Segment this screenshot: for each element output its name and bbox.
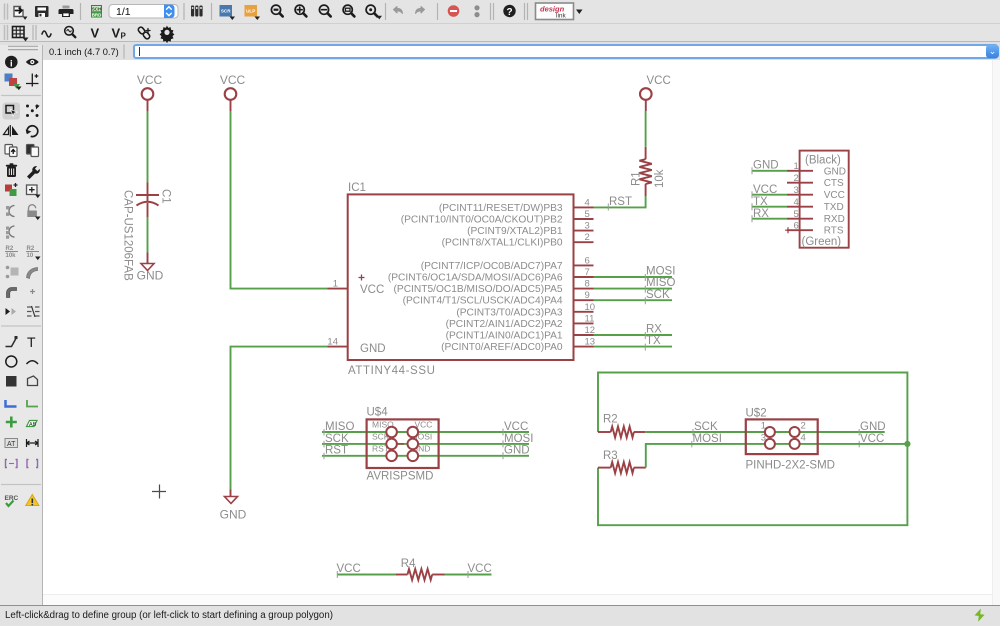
separators [491, 4, 494, 20]
VCC right tick [467, 571, 469, 578]
sch/brd icon [92, 6, 102, 18]
stop icon [448, 5, 460, 17]
svg-text:1: 1 [794, 161, 799, 172]
wire MOSI net [594, 276, 673, 278]
svg-text:6: 6 [794, 220, 799, 231]
power symbol VCC3 circle [640, 88, 652, 100]
svg-text:13: 13 [585, 337, 596, 348]
wire VCC1 to C1 [147, 111, 149, 183]
zoom in [295, 5, 306, 16]
change tool (wrench) [27, 166, 40, 179]
resistor R3 zigzag [611, 462, 634, 473]
U$4 pads [386, 427, 418, 461]
svg-text:(PCINT6/OC1A/SDA/MOSI/ADC6)PA6: (PCINT6/OC1A/SDA/MOSI/ADC6)PA6 [388, 273, 563, 284]
VCC left tick [336, 571, 338, 578]
svg-text:(PCINT9/XTAL2)PB1: (PCINT9/XTAL2)PB1 [467, 226, 563, 237]
svg-text:GND: GND [860, 421, 886, 433]
svg-text:SCK: SCK [646, 289, 670, 301]
svg-text:RST: RST [325, 445, 348, 457]
wire GND serial [752, 170, 788, 172]
svg-text:ERC: ERC [5, 495, 19, 502]
save icon [35, 6, 49, 17]
svg-text:(PCINT7/ICP/OC0B/ADC7)PA7: (PCINT7/ICP/OC0B/ADC7)PA7 [421, 261, 563, 272]
svg-text:V: V [112, 26, 121, 41]
split tool [27, 306, 40, 317]
svg-text:CTS: CTS [824, 178, 844, 189]
replace tool [5, 183, 18, 196]
svg-text:14: 14 [327, 337, 338, 348]
svg-text:TX: TX [753, 196, 768, 208]
separator [123, 45, 125, 59]
svg-text:(Green): (Green) [802, 236, 842, 248]
serial pin names [824, 166, 846, 236]
gateswap tool [6, 308, 17, 315]
serial pin stubs [787, 171, 813, 230]
svg-text:GND: GND [137, 269, 164, 283]
polygon tool [28, 376, 38, 386]
go dots [474, 5, 479, 17]
U$4 inside pin names [372, 420, 432, 454]
group lock tool [27, 205, 40, 220]
frame1 tool [6, 460, 18, 468]
palette separator 3 [1, 484, 41, 486]
undo [394, 7, 403, 14]
svg-text:V: V [91, 26, 100, 41]
wire SCK net [594, 299, 673, 301]
print icon [59, 6, 74, 18]
svg-text:2: 2 [794, 173, 799, 184]
svg-text:10k: 10k [654, 169, 666, 188]
VCC1 pin stub [147, 100, 149, 112]
resistor R4 zigzag [408, 569, 433, 580]
svg-text:T: T [27, 334, 36, 350]
svg-text:AB: AB [29, 422, 37, 428]
wire R3 up and to right edge [646, 444, 908, 468]
junction dot [904, 441, 910, 447]
svg-text:10: 10 [27, 253, 34, 259]
move tool [26, 104, 40, 117]
wave icon [42, 31, 51, 37]
separator [80, 4, 82, 20]
IC1 right pin stubs [574, 207, 594, 346]
IC1 pin name labels [388, 203, 563, 353]
svg-text:VCC: VCC [647, 75, 671, 87]
svg-text:8: 8 [585, 279, 590, 290]
svg-text:BRD: BRD [92, 12, 102, 17]
separator [437, 4, 439, 20]
miter tool [26, 246, 41, 260]
svg-text:C1: C1 [160, 189, 172, 204]
svg-text:(PCINT5/OC1B/MISO/DO/ADC5)PA5: (PCINT5/OC1B/MISO/DO/ADC5)PA5 [394, 284, 563, 295]
wire R1 to VCC3 [645, 111, 647, 147]
copy tool [5, 145, 17, 157]
paste tool [27, 145, 39, 157]
library icon [191, 6, 203, 17]
svg-text:TXD: TXD [824, 202, 844, 213]
svg-text:4: 4 [794, 197, 799, 208]
svg-text:U$2: U$2 [746, 408, 767, 420]
IC1 pin 1 stub [328, 288, 348, 290]
resistor R2 right lead [634, 431, 646, 433]
right label ticks [502, 429, 504, 460]
svg-text:VCC: VCC [753, 184, 777, 196]
svg-text:SCR: SCR [221, 9, 231, 14]
resistor R3 right lead [634, 467, 646, 469]
serial connector body [800, 151, 849, 248]
junction cross small [30, 289, 35, 294]
errors tool [26, 495, 39, 506]
svg-text:5: 5 [585, 209, 590, 220]
mirror tool [4, 125, 18, 137]
arc tool [27, 361, 39, 364]
svg-text:(PCINT10/INT0/OC0A/CKOUT)PB2: (PCINT10/INT0/OC0A/CKOUT)PB2 [401, 215, 563, 226]
GND2 pin stub [230, 490, 232, 497]
wire AVRISP RST row [322, 455, 529, 457]
eye [26, 59, 39, 66]
erc tool [5, 495, 19, 506]
connector U$4 body [367, 419, 439, 468]
svg-text:IC1: IC1 [348, 182, 366, 194]
mark origin [26, 74, 39, 87]
svg-text:11: 11 [585, 313, 595, 324]
wire VCC to R4 left [337, 574, 396, 576]
wire IC1 pin 14 to GND2 [231, 347, 328, 490]
svg-text:(PCINT1/AIN0/ADC1)PA1: (PCINT1/AIN0/ADC1)PA1 [446, 331, 563, 342]
wire RX serial [752, 218, 788, 220]
svg-text:GND: GND [824, 166, 846, 177]
svg-text:VCC: VCC [504, 421, 528, 433]
name tool [6, 206, 15, 217]
svg-text:R3: R3 [603, 450, 618, 462]
svg-text:10k: 10k [6, 253, 17, 259]
svg-text:VCC: VCC [860, 433, 884, 445]
svg-text:1: 1 [333, 279, 338, 290]
power symbol VCC2 circle [225, 88, 237, 100]
grip row2 [5, 26, 8, 40]
svg-text:VCC: VCC [220, 73, 246, 87]
svg-text:R4: R4 [401, 558, 416, 570]
svg-text:AVRISPSMD: AVRISPSMD [367, 471, 434, 483]
wire/line tool [6, 336, 18, 347]
help icon [503, 5, 515, 18]
svg-text:(PCINT0/AREF/ADC0)PA0: (PCINT0/AREF/ADC0)PA0 [441, 342, 563, 353]
label tool [27, 421, 38, 428]
svg-text:4: 4 [585, 197, 590, 208]
resistor R2 left lead [598, 431, 611, 433]
magnifier-wave icon [65, 27, 76, 38]
svg-text:U$4: U$4 [367, 407, 389, 419]
svg-text:VCC: VCC [824, 190, 845, 201]
svg-text:MOSI: MOSI [504, 433, 533, 445]
wire MISO net [594, 288, 673, 290]
svg-text:?: ? [506, 7, 512, 18]
SCK label tick [644, 297, 646, 304]
svg-text:5: 5 [794, 209, 799, 220]
svg-text:RST: RST [609, 196, 632, 208]
wire AVRISP SCK row [322, 443, 529, 445]
svg-text:ATTINY44-SSU: ATTINY44-SSU [348, 365, 436, 377]
VCC loop wire [598, 373, 907, 526]
grid icon [13, 27, 29, 42]
svg-text:2: 2 [585, 232, 590, 243]
separators [525, 4, 528, 20]
svg-text:VCC: VCC [468, 563, 492, 575]
serial pin6 plus [785, 227, 791, 233]
redo [416, 7, 425, 14]
svg-text:(PCINT4/T1/SCL/USCK/ADC4)PA4: (PCINT4/T1/SCL/USCK/ADC4)PA4 [403, 296, 563, 307]
svg-text:R1: R1 [631, 171, 643, 186]
U$4 middle pin dash [397, 443, 404, 445]
IC1 pin 14 stub [328, 346, 348, 348]
svg-text:(PCINT8/XTAL1/CLKI)PB0: (PCINT8/XTAL1/CLKI)PB0 [442, 238, 563, 249]
svg-text:VCC: VCC [337, 563, 361, 575]
bus tool [6, 400, 17, 407]
dimension tool [27, 439, 39, 447]
svg-text:CAP-US1206FAB: CAP-US1206FAB [122, 190, 134, 281]
palette separator 2 [1, 325, 41, 327]
svg-text:1/1: 1/1 [116, 6, 131, 18]
palette separator [1, 95, 41, 97]
svg-text:9: 9 [585, 290, 590, 301]
separator [211, 4, 213, 20]
separator [385, 4, 387, 20]
RX label tick [644, 332, 646, 339]
wire RST net [594, 196, 646, 207]
VCC3 pin stub [645, 100, 647, 112]
svg-text:i: i [10, 58, 13, 69]
svg-text:RTS: RTS [824, 226, 844, 237]
svg-text:ULP: ULP [246, 9, 255, 14]
svg-text:12: 12 [585, 325, 596, 336]
display layers [5, 74, 22, 91]
svg-text:4: 4 [801, 433, 806, 444]
svg-text:(PCINT2/AIN1/ADC2)PA2: (PCINT2/AIN1/ADC2)PA2 [446, 319, 563, 330]
svg-text:2: 2 [801, 421, 806, 432]
svg-text:3: 3 [585, 221, 590, 232]
svg-text:GND: GND [753, 160, 779, 172]
wire TX serial [752, 206, 788, 208]
select tool highlighted [3, 103, 21, 120]
IC1 VCC pin marker [359, 275, 365, 281]
power symbol VCC1 circle [142, 88, 154, 100]
open icon [14, 7, 27, 20]
svg-text:(PCINT11/RESET/DW)PB3: (PCINT11/RESET/DW)PB3 [439, 203, 563, 214]
origin cross [152, 485, 166, 499]
rotate tool [26, 126, 38, 137]
svg-text:PINHD-2X2-SMD: PINHD-2X2-SMD [746, 460, 835, 472]
svg-text:SCK: SCK [325, 433, 349, 445]
VCC2 pin stub [230, 100, 232, 112]
svg-text:RX: RX [646, 324, 662, 336]
serial label ticks [751, 167, 753, 222]
svg-text:RXD: RXD [824, 214, 845, 225]
svg-text:7: 7 [585, 267, 590, 278]
left label ticks [323, 429, 325, 459]
svg-text:link: link [556, 13, 567, 20]
frame2 tool [27, 460, 38, 468]
IC1 right pin numbers [585, 197, 596, 347]
info [5, 56, 18, 69]
zoom out [319, 5, 330, 16]
link icon [137, 26, 150, 40]
array/frame tool [27, 185, 41, 198]
svg-text:10: 10 [585, 302, 596, 313]
svg-text:VCC: VCC [137, 73, 163, 87]
svg-text:MOSI: MOSI [693, 433, 722, 445]
ground symbol GND2 [225, 497, 238, 504]
wire R2 to U$2 pin1 and GND stub [645, 431, 884, 433]
resistor R4 right lead [432, 574, 444, 576]
RST label tick [607, 204, 609, 211]
wire C1 to GND1 [147, 217, 149, 253]
attribute tool [5, 439, 18, 449]
junction tool [6, 417, 17, 428]
zoom select [343, 5, 354, 16]
capacitor C1 [136, 183, 159, 218]
wire VCC2 down to IC1 pin 1 [231, 111, 328, 289]
svg-text:3: 3 [794, 185, 799, 196]
svg-text:SCH: SCH [92, 7, 101, 12]
smash tool [5, 246, 18, 259]
TX label tick [644, 344, 646, 351]
svg-text:GND: GND [220, 508, 247, 522]
page combobox [109, 5, 178, 19]
wire VCC serial [752, 194, 788, 196]
route curve tool [27, 268, 38, 279]
pinswap tool [6, 266, 19, 279]
svg-text:AT: AT [7, 441, 16, 448]
wire R4 right to VCC [445, 574, 492, 576]
GND1 pin stub [147, 253, 149, 264]
net tool [27, 400, 38, 407]
svg-text:TX: TX [646, 335, 661, 347]
wire RX net [594, 334, 673, 336]
value tool [6, 226, 15, 239]
svg-text:SCK: SCK [694, 421, 718, 433]
GND stub end tick [692, 429, 859, 447]
resistor R3 left lead [598, 467, 611, 469]
svg-text:MISO: MISO [325, 421, 354, 433]
ground symbol GND1 [141, 264, 154, 271]
op-amp ATTINY44 IC1 body [348, 194, 574, 360]
svg-text:MISO: MISO [646, 277, 675, 289]
resistor R2 zigzag [611, 427, 634, 438]
svg-text:(PCINT3/T0/ADC3)PA3: (PCINT3/T0/ADC3)PA3 [456, 307, 563, 318]
MISO label tick [644, 286, 646, 293]
resistor R1 zigzag [639, 159, 651, 184]
svg-text:RX: RX [753, 208, 769, 220]
circle tool [6, 356, 17, 367]
svg-text:GND: GND [504, 445, 530, 457]
MOSI label tick [644, 274, 646, 281]
svg-text:P: P [121, 32, 127, 41]
ULP icon [245, 5, 261, 20]
resistor R1 leads [645, 147, 647, 196]
separator [183, 4, 185, 20]
zoom redraw [366, 5, 382, 19]
connector U$2 body [746, 419, 818, 454]
svg-text:GND: GND [360, 343, 386, 355]
delete tool [6, 163, 17, 177]
svg-text:(Black): (Black) [805, 155, 841, 167]
design link button [536, 3, 583, 20]
svg-text:6: 6 [585, 255, 590, 266]
status lightning bolt [975, 609, 985, 622]
zoom fit [271, 5, 282, 16]
palette grip [8, 46, 38, 49]
wire TX net [594, 346, 673, 348]
rect tool [6, 376, 17, 387]
resistor R4 left lead [396, 574, 408, 576]
svg-text:R2: R2 [603, 414, 618, 426]
gear icon [160, 26, 175, 44]
SCR icon [220, 5, 236, 20]
svg-text:MOSI: MOSI [646, 266, 675, 278]
serial pin numbers [794, 161, 799, 231]
corner tool [7, 288, 17, 298]
grip row1 [5, 4, 8, 19]
svg-text:VCC: VCC [360, 284, 384, 296]
U$2 pads [765, 427, 800, 449]
wire AVRISP MISO row [322, 431, 529, 433]
